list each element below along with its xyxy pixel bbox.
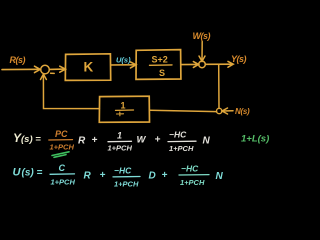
svg-text:+: +	[92, 135, 98, 146]
wire: pickoff node to feedback block	[150, 110, 217, 111]
signal N(s)	[235, 107, 250, 116]
svg-text:1+L(s): 1+L(s)	[241, 134, 269, 145]
equation 1: fraction 1 / 1+PCH	[108, 131, 133, 153]
note: 1+L(s) in green	[241, 134, 269, 145]
svg-text:W(s): W(s)	[193, 31, 211, 41]
equation 1: N	[203, 136, 211, 147]
svg-text:C: C	[59, 163, 66, 173]
block 1/H (feedback sensor)	[99, 96, 149, 122]
equation 2: N	[216, 171, 224, 182]
node: pickoff junction	[217, 108, 222, 113]
svg-text:U: U	[13, 167, 22, 179]
node: summing junction S1	[41, 65, 55, 74]
svg-text:W: W	[137, 135, 147, 146]
svg-text:R: R	[84, 171, 92, 182]
svg-text:−HC: −HC	[169, 130, 187, 140]
equation 2: fraction C / 1+PCH	[50, 163, 75, 187]
svg-text:R: R	[78, 136, 86, 147]
svg-text:N: N	[216, 171, 224, 182]
svg-text:(s) =: (s) =	[22, 168, 43, 179]
wire: K to plant block	[111, 62, 136, 68]
svg-text:N(s): N(s)	[235, 107, 250, 116]
wire: S1 to block K	[49, 66, 65, 72]
block (S+2)/S (plant)	[136, 50, 181, 80]
signal W(s)	[193, 31, 211, 41]
equation 2: U(s) =	[13, 167, 43, 179]
svg-text:(s) =: (s) =	[21, 134, 41, 145]
svg-text:+: +	[155, 135, 161, 146]
svg-text:S+2: S+2	[152, 55, 168, 65]
wire: plant to summing junction S2	[181, 62, 199, 68]
equation 2: fraction -HC / 1+PCH	[113, 166, 140, 189]
svg-text:D: D	[149, 171, 156, 182]
svg-text:K: K	[84, 60, 94, 75]
wire: output Y(s)	[205, 61, 233, 67]
svg-text:+: +	[162, 170, 168, 181]
svg-text:1: 1	[121, 101, 126, 111]
block K (controller)	[65, 54, 110, 81]
equation 1: fraction PC / 1+PCH	[49, 129, 75, 152]
svg-text:1+PCH: 1+PCH	[114, 180, 139, 189]
wire: N(s) into pickoff node	[222, 108, 233, 114]
svg-text:1+PCH: 1+PCH	[50, 143, 75, 152]
node: summing junction S2	[199, 61, 206, 68]
svg-text:Y(s): Y(s)	[231, 54, 247, 64]
svg-text:N: N	[203, 136, 211, 147]
equation 1: Y(s) =	[13, 131, 41, 145]
svg-text:1+PCH: 1+PCH	[180, 178, 205, 187]
svg-text:PC: PC	[55, 129, 68, 139]
svg-text:1+PCH: 1+PCH	[169, 144, 194, 153]
equation 2: R +	[84, 170, 106, 182]
wire: W(s) down into S2	[199, 42, 205, 62]
svg-text:−HC: −HC	[181, 164, 199, 174]
signal Y(s)	[231, 54, 247, 64]
signal U(s)	[116, 56, 131, 65]
svg-text:S: S	[159, 68, 165, 78]
green emphasis under 1+PCH	[52, 152, 69, 158]
svg-text:1+PCH: 1+PCH	[51, 178, 76, 187]
svg-text:1: 1	[117, 131, 122, 141]
equation 1: W +	[137, 135, 161, 146]
wire: R(s) input to summing junction S1	[2, 66, 40, 72]
signal R(s)	[10, 55, 26, 65]
svg-text:−HC: −HC	[114, 166, 132, 176]
wire: feedback return to S1	[41, 74, 100, 108]
svg-text:R(s): R(s)	[10, 55, 26, 65]
svg-text:U(s): U(s)	[116, 56, 131, 65]
equation 1: R +	[78, 135, 98, 147]
equation 1: fraction -HC / 1+PCH	[168, 130, 196, 154]
equation 2: fraction -HC / 1+PCH (teal)	[179, 164, 209, 188]
equation 2: D +	[149, 170, 168, 182]
wire: branch from output down to pickoff node	[218, 64, 220, 108]
svg-text:1+PCH: 1+PCH	[108, 144, 133, 153]
svg-text:+: +	[100, 170, 106, 181]
